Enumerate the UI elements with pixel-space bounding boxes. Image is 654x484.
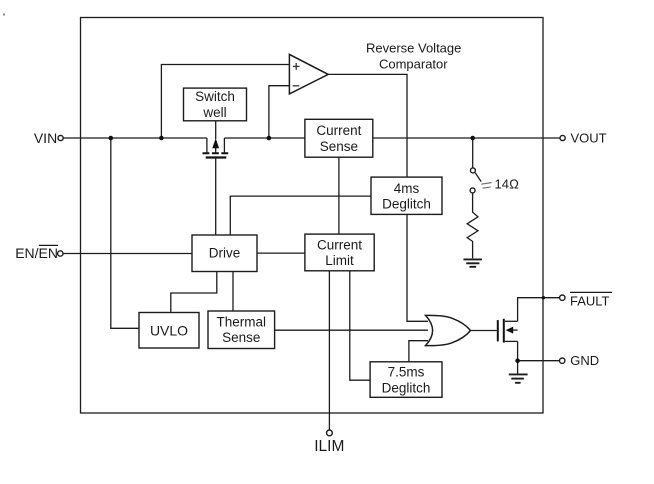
svg-text:ILIM: ILIM bbox=[314, 438, 344, 455]
svg-text:Comparator: Comparator bbox=[379, 56, 448, 71]
svg-text:Switch: Switch bbox=[195, 89, 235, 104]
svg-text:Deglitch: Deglitch bbox=[382, 380, 431, 395]
svg-text:Drive: Drive bbox=[209, 246, 241, 261]
svg-text:Current: Current bbox=[317, 238, 362, 253]
svg-text:VIN: VIN bbox=[34, 130, 57, 146]
svg-text:Limit: Limit bbox=[325, 253, 354, 268]
svg-text:7.5ms: 7.5ms bbox=[388, 365, 425, 380]
svg-text:Sense: Sense bbox=[320, 139, 358, 154]
svg-text:VOUT: VOUT bbox=[571, 131, 607, 146]
svg-text:UVLO: UVLO bbox=[150, 322, 188, 338]
svg-text:Sense: Sense bbox=[222, 330, 260, 345]
svg-text:Thermal: Thermal bbox=[217, 314, 267, 329]
svg-text:14Ω: 14Ω bbox=[495, 177, 519, 192]
svg-text:well: well bbox=[202, 105, 226, 120]
svg-text:EN/EN: EN/EN bbox=[15, 245, 58, 261]
svg-text:Reverse Voltage: Reverse Voltage bbox=[366, 40, 461, 55]
svg-text:GND: GND bbox=[570, 353, 599, 368]
svg-text:Current: Current bbox=[316, 123, 361, 138]
svg-text:Deglitch: Deglitch bbox=[382, 197, 431, 212]
svg-text:4ms: 4ms bbox=[394, 181, 420, 196]
svg-text:FAULT: FAULT bbox=[570, 293, 610, 308]
